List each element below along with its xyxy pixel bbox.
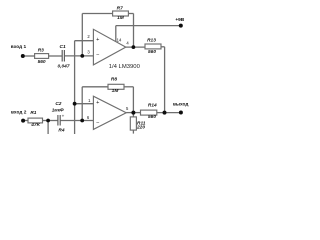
svg-text:+: + [96, 37, 99, 43]
node pin5 output junction [131, 111, 135, 115]
wire pin14 to +9V rail [115, 26, 117, 42]
svg-text:R3: R3 [38, 48, 44, 54]
svg-text:560: 560 [38, 59, 46, 65]
wire R7 right to corner [128, 13, 133, 15]
node pin4 output junction [132, 45, 136, 49]
svg-text:+9В: +9В [175, 17, 184, 23]
svg-text:1/4 LM3900: 1/4 LM3900 [109, 64, 141, 70]
svg-text:0,047: 0,047 [57, 63, 69, 69]
svg-text:560: 560 [148, 114, 156, 120]
wire R1 to C2 [43, 120, 58, 122]
svg-text:560: 560 [148, 49, 156, 55]
svg-text:C2: C2 [55, 101, 61, 107]
op-amp U1.1 triangle [93, 29, 125, 65]
wire bias line vertical to R4 [74, 41, 76, 134]
terminal +9V [179, 24, 183, 28]
wire R7 loop top [82, 13, 112, 15]
svg-text:1мкФ: 1мкФ [52, 107, 64, 112]
node pin1 junction [73, 102, 77, 106]
op-amp U1.2 triangle [93, 96, 126, 129]
wire input2 to R1 [23, 120, 28, 122]
terminal input2 [21, 119, 25, 123]
svg-text:220: 220 [136, 125, 145, 131]
wire pin2 horizontal [75, 40, 94, 42]
svg-text:C1: C1 [60, 44, 66, 50]
wire pin5 down to R11 [132, 113, 134, 117]
svg-text:вход 2: вход 2 [11, 110, 27, 116]
wire input1 to R3 [23, 55, 35, 57]
terminal input1 [21, 54, 25, 58]
svg-text:1M: 1M [117, 15, 125, 21]
svg-text:R13: R13 [147, 37, 156, 43]
wire R13 right to corner [161, 46, 165, 48]
svg-text:вход 1: вход 1 [11, 44, 27, 50]
resistor R3 [35, 54, 49, 59]
svg-text:+: + [62, 114, 65, 119]
wire node3 up to R7 loop [81, 14, 83, 56]
svg-text:R4: R4 [58, 128, 64, 134]
svg-text:R1: R1 [30, 110, 36, 116]
svg-text:R7: R7 [117, 5, 123, 11]
svg-text:R14: R14 [148, 102, 157, 108]
resistor R1 [28, 118, 43, 123]
svg-text:14: 14 [117, 37, 122, 42]
wire R8 corner down to pin5 node [132, 87, 134, 113]
wire R13 corner down to output node [164, 47, 166, 113]
wire R8 left loop [82, 86, 108, 88]
svg-text:выход: выход [173, 102, 189, 107]
wire R1 junction down [47, 121, 49, 135]
svg-text:−: − [96, 52, 99, 58]
resistor R8 [108, 84, 124, 89]
wire R3 to C1 [49, 55, 63, 57]
node pin6 junction [80, 119, 84, 123]
capacitor C1 plates [61, 50, 63, 62]
svg-text:1M: 1M [112, 88, 120, 94]
svg-text:47K: 47K [30, 122, 40, 128]
wire R14 to output terminal [157, 112, 179, 114]
wire R8 right to corner [124, 86, 133, 88]
resistor R11 vertical [130, 117, 136, 130]
svg-text:−: − [96, 120, 99, 126]
node output mix junction [163, 111, 167, 115]
wire R7 corner down to pin4 node [133, 14, 135, 48]
svg-text:+: + [96, 100, 99, 106]
wire pin5 to R14 [126, 112, 140, 114]
wire R8 left down to pin6 node [81, 87, 83, 121]
wire pin1 horizontal [75, 103, 94, 105]
wire C2 to pin6 [60, 120, 93, 122]
node R1-C2 junction [46, 119, 50, 123]
wire C1 to pin3 [64, 55, 93, 57]
resistor R7 [113, 11, 129, 16]
capacitor C2 plates [57, 115, 59, 126]
svg-text:R8: R8 [111, 77, 117, 83]
terminal output [179, 111, 183, 115]
node pin3 junction [80, 54, 84, 58]
wire pin4 to R13 [126, 46, 145, 48]
resistor R13 [145, 44, 161, 49]
wire +9V rail [116, 25, 181, 27]
wire R11 bottom stub [132, 130, 134, 134]
resistor R14 [141, 110, 157, 115]
